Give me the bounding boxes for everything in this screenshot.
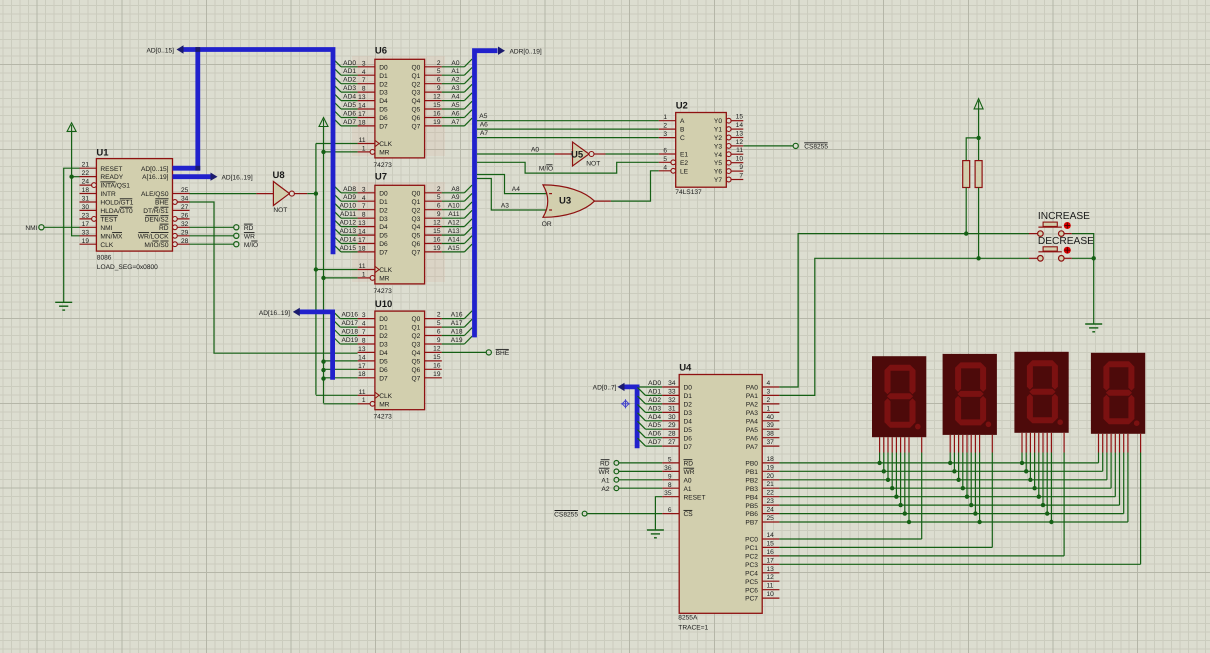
svg-text:7: 7 bbox=[739, 173, 743, 180]
svg-text:LOAD_SEG=0x0800: LOAD_SEG=0x0800 bbox=[97, 264, 158, 271]
svg-text:25: 25 bbox=[767, 515, 775, 522]
svg-text:DECREASE: DECREASE bbox=[1038, 236, 1094, 247]
svg-text:D4: D4 bbox=[379, 98, 388, 105]
svg-text:16: 16 bbox=[433, 362, 441, 369]
svg-text:33: 33 bbox=[668, 388, 676, 395]
svg-text:A3: A3 bbox=[451, 85, 459, 92]
svg-text:4: 4 bbox=[362, 321, 366, 328]
svg-text:3: 3 bbox=[767, 388, 771, 395]
svg-text:Q6: Q6 bbox=[412, 241, 421, 248]
svg-text:Q0: Q0 bbox=[412, 190, 421, 197]
svg-text:A9: A9 bbox=[451, 194, 459, 201]
svg-text:14: 14 bbox=[358, 103, 366, 110]
svg-text:11: 11 bbox=[736, 147, 743, 154]
svg-text:AD0: AD0 bbox=[343, 60, 356, 67]
svg-text:2: 2 bbox=[437, 312, 441, 319]
svg-text:RESET: RESET bbox=[100, 166, 122, 173]
svg-text:AD18: AD18 bbox=[342, 329, 359, 336]
svg-text:BHE: BHE bbox=[155, 200, 169, 207]
svg-text:14: 14 bbox=[358, 354, 366, 361]
svg-text:E1: E1 bbox=[680, 152, 688, 159]
svg-text:11: 11 bbox=[359, 137, 366, 144]
svg-text:D1: D1 bbox=[379, 73, 388, 80]
svg-text:ALE/QS0: ALE/QS0 bbox=[141, 191, 169, 198]
svg-text:5: 5 bbox=[668, 456, 672, 463]
svg-text:OR: OR bbox=[542, 221, 552, 228]
svg-text:30: 30 bbox=[82, 204, 90, 211]
svg-text:PA6: PA6 bbox=[746, 435, 758, 442]
svg-text:A2: A2 bbox=[451, 77, 459, 84]
svg-text:1: 1 bbox=[767, 405, 771, 412]
svg-text:A5: A5 bbox=[451, 102, 459, 109]
svg-text:A4: A4 bbox=[512, 186, 520, 193]
svg-text:19: 19 bbox=[767, 464, 775, 471]
svg-text:CLK: CLK bbox=[379, 393, 392, 400]
svg-text:WR: WR bbox=[244, 233, 255, 240]
svg-text:AD0: AD0 bbox=[648, 380, 661, 387]
svg-text:D5: D5 bbox=[684, 427, 693, 434]
svg-text:PB0: PB0 bbox=[745, 461, 758, 468]
svg-text:PA1: PA1 bbox=[746, 393, 758, 400]
svg-text:3: 3 bbox=[362, 312, 366, 319]
svg-text:A19: A19 bbox=[451, 337, 463, 344]
svg-text:D4: D4 bbox=[379, 350, 388, 357]
svg-text:MN/MX: MN/MX bbox=[100, 233, 123, 240]
svg-text:AD5: AD5 bbox=[648, 422, 661, 429]
svg-text:34: 34 bbox=[668, 380, 676, 387]
svg-text:Q5: Q5 bbox=[412, 233, 421, 240]
svg-text:D5: D5 bbox=[379, 359, 388, 366]
svg-text:RESET: RESET bbox=[684, 494, 706, 501]
svg-text:D6: D6 bbox=[379, 367, 388, 374]
svg-text:A0: A0 bbox=[451, 60, 459, 67]
svg-text:AD3: AD3 bbox=[343, 85, 356, 92]
svg-text:Y0: Y0 bbox=[714, 118, 722, 125]
svg-text:39: 39 bbox=[767, 422, 775, 429]
svg-text:D5: D5 bbox=[379, 233, 388, 240]
svg-text:27: 27 bbox=[181, 204, 189, 211]
svg-text:9: 9 bbox=[668, 473, 672, 480]
svg-text:Q3: Q3 bbox=[412, 216, 421, 223]
svg-text:2: 2 bbox=[437, 186, 441, 193]
svg-text:D7: D7 bbox=[379, 250, 388, 257]
svg-text:A6: A6 bbox=[480, 122, 488, 129]
svg-text:6: 6 bbox=[437, 77, 441, 84]
svg-text:A3: A3 bbox=[501, 202, 509, 209]
svg-text:32: 32 bbox=[668, 397, 676, 404]
svg-text:Q1: Q1 bbox=[412, 73, 421, 80]
svg-text:A7: A7 bbox=[451, 119, 459, 126]
svg-text:Y6: Y6 bbox=[714, 169, 722, 176]
svg-text:AD13: AD13 bbox=[340, 228, 357, 235]
svg-text:28: 28 bbox=[181, 238, 189, 245]
svg-text:U7: U7 bbox=[375, 172, 387, 183]
svg-text:CS8255: CS8255 bbox=[554, 511, 578, 518]
svg-text:DT/R/S1: DT/R/S1 bbox=[143, 208, 169, 215]
svg-text:22: 22 bbox=[82, 170, 90, 177]
svg-text:A4: A4 bbox=[451, 94, 459, 101]
svg-text:5: 5 bbox=[437, 320, 441, 327]
svg-text:16: 16 bbox=[767, 549, 775, 556]
svg-text:D3: D3 bbox=[379, 90, 388, 97]
svg-text:19: 19 bbox=[82, 238, 90, 245]
svg-text:INCREASE: INCREASE bbox=[1038, 211, 1090, 222]
svg-text:74LS137: 74LS137 bbox=[675, 189, 702, 196]
svg-text:AD6: AD6 bbox=[648, 431, 661, 438]
svg-text:9: 9 bbox=[437, 85, 441, 92]
svg-text:18: 18 bbox=[358, 245, 366, 252]
svg-text:PC4: PC4 bbox=[745, 570, 758, 577]
svg-text:AD2: AD2 bbox=[648, 397, 661, 404]
svg-text:AD17: AD17 bbox=[342, 320, 359, 327]
svg-text:13: 13 bbox=[358, 346, 366, 353]
svg-text:D1: D1 bbox=[684, 393, 693, 400]
svg-text:D7: D7 bbox=[379, 124, 388, 131]
svg-text:20: 20 bbox=[767, 473, 775, 480]
svg-text:PC6: PC6 bbox=[745, 587, 758, 594]
svg-text:7: 7 bbox=[362, 203, 366, 210]
svg-text:18: 18 bbox=[358, 119, 366, 126]
svg-text:AD14: AD14 bbox=[340, 237, 357, 244]
svg-text:AD12: AD12 bbox=[340, 220, 357, 227]
svg-text:25: 25 bbox=[181, 187, 189, 194]
svg-text:D4: D4 bbox=[684, 418, 693, 425]
svg-text:10: 10 bbox=[767, 591, 775, 598]
svg-text:PB4: PB4 bbox=[745, 494, 758, 501]
svg-text:35: 35 bbox=[664, 490, 672, 497]
svg-text:28: 28 bbox=[668, 431, 676, 438]
svg-text:13: 13 bbox=[358, 94, 366, 101]
svg-text:WR: WR bbox=[599, 469, 610, 476]
svg-text:A13: A13 bbox=[448, 228, 460, 235]
svg-text:1: 1 bbox=[663, 114, 667, 121]
svg-text:NOT: NOT bbox=[273, 207, 287, 214]
svg-text:AD1: AD1 bbox=[343, 68, 356, 75]
svg-text:7: 7 bbox=[362, 329, 366, 336]
svg-text:D2: D2 bbox=[379, 333, 388, 340]
svg-text:M/IO: M/IO bbox=[539, 166, 553, 173]
svg-text:Q2: Q2 bbox=[412, 207, 421, 214]
svg-text:22: 22 bbox=[767, 490, 775, 497]
svg-text:14: 14 bbox=[736, 122, 744, 129]
svg-text:Q7: Q7 bbox=[412, 250, 421, 257]
svg-text:HOLD/GT1: HOLD/GT1 bbox=[100, 200, 133, 207]
svg-text:PC7: PC7 bbox=[745, 596, 758, 603]
svg-text:A2: A2 bbox=[601, 486, 609, 493]
svg-text:A1: A1 bbox=[451, 68, 459, 75]
svg-text:C: C bbox=[680, 135, 685, 142]
svg-text:15: 15 bbox=[736, 114, 744, 121]
svg-text:23: 23 bbox=[767, 498, 775, 505]
svg-text:U1: U1 bbox=[96, 148, 109, 159]
svg-text:Q6: Q6 bbox=[412, 367, 421, 374]
svg-text:D3: D3 bbox=[379, 216, 388, 223]
svg-text:12: 12 bbox=[736, 139, 744, 146]
svg-text:AD[0..15]: AD[0..15] bbox=[147, 48, 175, 55]
svg-text:NOT: NOT bbox=[586, 161, 600, 168]
svg-text:21: 21 bbox=[767, 481, 775, 488]
svg-text:12: 12 bbox=[433, 345, 441, 352]
svg-text:D4: D4 bbox=[379, 224, 388, 231]
svg-text:BHE: BHE bbox=[496, 350, 510, 357]
svg-text:RD: RD bbox=[159, 225, 169, 232]
svg-text:U6: U6 bbox=[375, 46, 387, 57]
svg-text:AD9: AD9 bbox=[343, 194, 356, 201]
svg-text:15: 15 bbox=[433, 354, 441, 361]
svg-text:D2: D2 bbox=[379, 207, 388, 214]
svg-text:AD11: AD11 bbox=[340, 211, 356, 218]
svg-text:7: 7 bbox=[362, 77, 366, 84]
svg-text:CLK: CLK bbox=[379, 267, 392, 274]
svg-text:A16: A16 bbox=[451, 312, 463, 319]
svg-text:U10: U10 bbox=[375, 299, 392, 310]
svg-text:Q0: Q0 bbox=[412, 316, 421, 323]
svg-text:6: 6 bbox=[668, 507, 672, 514]
svg-text:U2: U2 bbox=[676, 101, 688, 112]
svg-text:AD4: AD4 bbox=[648, 414, 661, 421]
svg-text:D1: D1 bbox=[379, 199, 388, 206]
svg-text:PB7: PB7 bbox=[745, 520, 758, 527]
svg-text:Y2: Y2 bbox=[714, 135, 722, 142]
svg-text:12: 12 bbox=[433, 220, 441, 227]
svg-text:A1: A1 bbox=[601, 477, 609, 484]
svg-text:DEN/S2: DEN/S2 bbox=[145, 217, 169, 224]
svg-text:19: 19 bbox=[433, 119, 441, 126]
svg-text:Q0: Q0 bbox=[412, 64, 421, 71]
svg-text:D6: D6 bbox=[379, 115, 388, 122]
svg-text:NMI: NMI bbox=[25, 225, 37, 232]
svg-text:PA4: PA4 bbox=[746, 418, 758, 425]
svg-text:AD4: AD4 bbox=[343, 94, 356, 101]
svg-text:AD[0..7]: AD[0..7] bbox=[593, 385, 617, 392]
svg-text:Q5: Q5 bbox=[412, 359, 421, 366]
svg-text:AD19: AD19 bbox=[342, 337, 359, 344]
svg-text:INTR: INTR bbox=[100, 191, 116, 198]
svg-text:PC5: PC5 bbox=[745, 579, 758, 586]
svg-text:A14: A14 bbox=[448, 237, 460, 244]
svg-text:74273: 74273 bbox=[374, 162, 393, 169]
svg-text:3: 3 bbox=[362, 60, 366, 67]
svg-text:PA3: PA3 bbox=[746, 410, 758, 417]
svg-text:A5: A5 bbox=[479, 113, 487, 120]
svg-text:AD6: AD6 bbox=[343, 111, 356, 118]
svg-text:PB2: PB2 bbox=[745, 477, 758, 484]
svg-text:READY: READY bbox=[100, 174, 123, 181]
svg-text:AD7: AD7 bbox=[343, 119, 356, 126]
svg-text:AD[0..15]: AD[0..15] bbox=[141, 166, 169, 173]
svg-text:A11: A11 bbox=[448, 211, 460, 218]
svg-text:11: 11 bbox=[359, 263, 366, 270]
svg-text:17: 17 bbox=[82, 221, 90, 228]
svg-text:AD[16..19]: AD[16..19] bbox=[222, 174, 253, 181]
svg-text:14: 14 bbox=[767, 532, 775, 539]
svg-text:3: 3 bbox=[663, 131, 667, 138]
svg-text:RD: RD bbox=[600, 461, 610, 468]
svg-text:13: 13 bbox=[358, 220, 366, 227]
svg-text:27: 27 bbox=[668, 439, 676, 446]
svg-text:Q4: Q4 bbox=[412, 98, 421, 105]
svg-text:21: 21 bbox=[82, 162, 90, 169]
svg-text:5: 5 bbox=[437, 68, 441, 75]
svg-text:Q2: Q2 bbox=[412, 333, 421, 340]
svg-text:AD10: AD10 bbox=[340, 203, 357, 210]
svg-text:A8: A8 bbox=[451, 186, 459, 193]
svg-text:PA2: PA2 bbox=[746, 402, 758, 409]
svg-text:A0: A0 bbox=[531, 147, 539, 154]
svg-text:15: 15 bbox=[767, 540, 775, 547]
svg-text:Q3: Q3 bbox=[412, 342, 421, 349]
svg-text:Y3: Y3 bbox=[714, 144, 722, 151]
svg-text:Y5: Y5 bbox=[714, 160, 722, 167]
svg-text:2: 2 bbox=[437, 60, 441, 67]
svg-text:A17: A17 bbox=[451, 320, 463, 327]
svg-text:8255A: 8255A bbox=[678, 615, 698, 622]
svg-text:MR: MR bbox=[379, 150, 389, 157]
svg-text:D0: D0 bbox=[684, 385, 693, 392]
svg-text:38: 38 bbox=[767, 431, 775, 438]
svg-text:12: 12 bbox=[767, 574, 775, 581]
svg-text:RD: RD bbox=[244, 225, 254, 232]
svg-text:D2: D2 bbox=[684, 402, 693, 409]
svg-text:Q3: Q3 bbox=[412, 90, 421, 97]
svg-text:Q1: Q1 bbox=[412, 199, 421, 206]
svg-text:6: 6 bbox=[663, 148, 667, 155]
svg-text:D6: D6 bbox=[379, 241, 388, 248]
svg-text:Q7: Q7 bbox=[412, 375, 421, 382]
svg-text:4: 4 bbox=[362, 195, 366, 202]
svg-text:D0: D0 bbox=[379, 316, 388, 323]
svg-text:M/IO: M/IO bbox=[244, 242, 258, 249]
svg-text:16: 16 bbox=[433, 237, 441, 244]
svg-text:A6: A6 bbox=[451, 111, 459, 118]
svg-text:29: 29 bbox=[181, 229, 189, 236]
svg-text:6: 6 bbox=[437, 329, 441, 336]
svg-text:26: 26 bbox=[181, 212, 189, 219]
svg-text:A[16..19]: A[16..19] bbox=[142, 174, 169, 181]
svg-text:AD3: AD3 bbox=[648, 405, 661, 412]
svg-text:32: 32 bbox=[181, 221, 189, 228]
svg-text:AD15: AD15 bbox=[340, 245, 357, 252]
svg-text:5: 5 bbox=[437, 194, 441, 201]
svg-text:17: 17 bbox=[358, 111, 366, 118]
svg-text:NMI: NMI bbox=[100, 225, 112, 232]
svg-text:6: 6 bbox=[437, 203, 441, 210]
svg-text:INTA/QS1: INTA/QS1 bbox=[100, 183, 130, 190]
svg-text:1: 1 bbox=[362, 271, 366, 278]
svg-text:8: 8 bbox=[362, 212, 366, 219]
svg-text:30: 30 bbox=[668, 414, 676, 421]
svg-text:U4: U4 bbox=[679, 363, 692, 374]
svg-text:2: 2 bbox=[663, 123, 667, 130]
svg-text:10: 10 bbox=[736, 156, 744, 163]
svg-text:4: 4 bbox=[767, 380, 771, 387]
svg-text:33: 33 bbox=[82, 229, 90, 236]
svg-text:A0: A0 bbox=[684, 477, 692, 484]
svg-text:U5: U5 bbox=[571, 150, 584, 161]
svg-text:RD: RD bbox=[684, 461, 694, 468]
svg-text:19: 19 bbox=[433, 245, 441, 252]
svg-text:29: 29 bbox=[668, 422, 676, 429]
svg-text:ADR[0..19]: ADR[0..19] bbox=[510, 49, 542, 56]
svg-text:AD2: AD2 bbox=[343, 77, 356, 84]
svg-text:Q2: Q2 bbox=[412, 81, 421, 88]
svg-text:D7: D7 bbox=[684, 444, 693, 451]
svg-text:3: 3 bbox=[362, 186, 366, 193]
svg-text:D3: D3 bbox=[684, 410, 693, 417]
svg-text:PC2: PC2 bbox=[745, 554, 758, 561]
svg-text:37: 37 bbox=[767, 439, 775, 446]
svg-text:18: 18 bbox=[358, 371, 366, 378]
svg-text:11: 11 bbox=[767, 583, 774, 590]
svg-text:B: B bbox=[680, 127, 685, 134]
svg-text:A18: A18 bbox=[451, 329, 463, 336]
svg-text:13: 13 bbox=[767, 566, 775, 573]
svg-text:PA0: PA0 bbox=[746, 385, 758, 392]
svg-text:17: 17 bbox=[767, 557, 775, 564]
svg-text:Q4: Q4 bbox=[412, 224, 421, 231]
svg-text:31: 31 bbox=[668, 405, 676, 412]
svg-text:36: 36 bbox=[664, 465, 672, 472]
svg-text:13: 13 bbox=[736, 131, 744, 138]
svg-text:A12: A12 bbox=[448, 220, 460, 227]
svg-text:A: A bbox=[680, 118, 685, 125]
svg-text:CS8255: CS8255 bbox=[804, 144, 828, 151]
svg-text:17: 17 bbox=[358, 363, 366, 370]
svg-text:MR: MR bbox=[379, 276, 389, 283]
svg-text:A15: A15 bbox=[448, 245, 460, 252]
svg-text:9: 9 bbox=[437, 211, 441, 218]
svg-text:PB1: PB1 bbox=[745, 469, 758, 476]
svg-text:24: 24 bbox=[82, 179, 90, 186]
svg-text:9: 9 bbox=[739, 164, 743, 171]
svg-text:8: 8 bbox=[362, 86, 366, 93]
svg-text:Y4: Y4 bbox=[714, 152, 722, 159]
svg-text:D0: D0 bbox=[379, 190, 388, 197]
svg-text:PA5: PA5 bbox=[746, 427, 758, 434]
svg-text:1: 1 bbox=[362, 145, 366, 152]
svg-text:A7: A7 bbox=[480, 130, 488, 137]
svg-text:Q5: Q5 bbox=[412, 107, 421, 114]
svg-text:TEST: TEST bbox=[100, 217, 117, 224]
svg-text:D0: D0 bbox=[379, 64, 388, 71]
svg-text:HLDA/GT0: HLDA/GT0 bbox=[100, 208, 133, 215]
svg-text:WR/LOCK: WR/LOCK bbox=[138, 233, 169, 240]
svg-text:PC1: PC1 bbox=[745, 545, 758, 552]
svg-text:D1: D1 bbox=[379, 325, 388, 332]
svg-text:PC3: PC3 bbox=[745, 562, 758, 569]
svg-text:18: 18 bbox=[767, 456, 775, 463]
svg-text:5: 5 bbox=[663, 156, 667, 163]
svg-text:M/IO/S0: M/IO/S0 bbox=[144, 242, 169, 249]
svg-text:PB5: PB5 bbox=[745, 503, 758, 510]
svg-text:40: 40 bbox=[767, 414, 775, 421]
svg-text:15: 15 bbox=[433, 228, 441, 235]
svg-text:WR: WR bbox=[684, 469, 695, 476]
svg-text:19: 19 bbox=[433, 371, 441, 378]
svg-text:12: 12 bbox=[433, 94, 441, 101]
svg-text:31: 31 bbox=[82, 196, 90, 203]
svg-text:9: 9 bbox=[437, 337, 441, 344]
svg-text:CLK: CLK bbox=[379, 141, 392, 148]
svg-text:4: 4 bbox=[362, 69, 366, 76]
svg-text:PA7: PA7 bbox=[746, 444, 758, 451]
svg-text:4: 4 bbox=[663, 164, 667, 171]
svg-text:MR: MR bbox=[379, 401, 389, 408]
svg-text:D7: D7 bbox=[379, 375, 388, 382]
svg-text:A10: A10 bbox=[448, 203, 460, 210]
svg-text:A1: A1 bbox=[684, 486, 692, 493]
svg-text:23: 23 bbox=[82, 212, 90, 219]
